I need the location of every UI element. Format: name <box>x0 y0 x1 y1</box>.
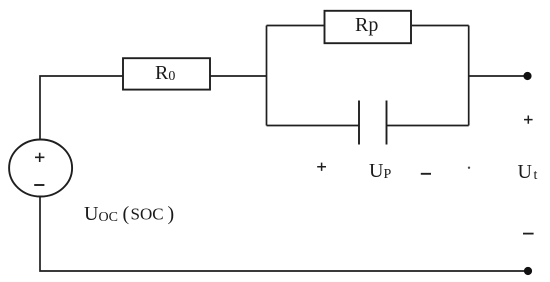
wire: top branch left segment to Rp <box>267 25 325 27</box>
svg-text:Ut: Ut <box>518 161 538 183</box>
wire: R0 to parallel block left node <box>210 75 267 77</box>
svg-text:Rp: Rp <box>355 14 378 36</box>
wire: from voltage source bottom down and along bottom rail <box>40 197 528 271</box>
svg-text:): ) <box>168 203 175 225</box>
node: negative output terminal dot <box>524 267 532 275</box>
svg-text:SOC: SOC <box>131 205 164 224</box>
svg-text:(: ( <box>123 203 130 225</box>
wire: bottom branch left segment to capacitor <box>267 125 360 127</box>
node: positive output terminal dot <box>523 72 531 80</box>
stray dot artifact <box>468 167 470 169</box>
voltage source minus sign <box>34 184 44 186</box>
svg-text:UP: UP <box>369 160 391 182</box>
svg-text:UOC: UOC <box>84 203 118 225</box>
wire: bottom branch right segment from capacitor to right vertical <box>387 125 469 127</box>
wire: parallel block left vertical <box>266 26 268 126</box>
wire: top-left L from R0 left down to voltage source top <box>40 76 123 140</box>
label: minus sign of Up <box>421 173 431 175</box>
label: plus sign of Ut <box>524 116 533 124</box>
wire: top branch right segment from Rp to right vertical <box>412 25 469 27</box>
wire: output positive lead <box>469 75 527 77</box>
voltage source plus sign <box>35 153 44 162</box>
voltage source U_OC circle <box>9 140 72 197</box>
label: minus sign of Ut <box>523 233 534 235</box>
resistor Rp <box>325 11 412 43</box>
capacitor Cp left plate <box>358 101 360 145</box>
wire: parallel block right vertical <box>468 26 470 126</box>
capacitor Cp right plate <box>386 101 388 145</box>
label: plus sign of Up <box>317 163 326 171</box>
resistor R0 <box>123 58 210 89</box>
